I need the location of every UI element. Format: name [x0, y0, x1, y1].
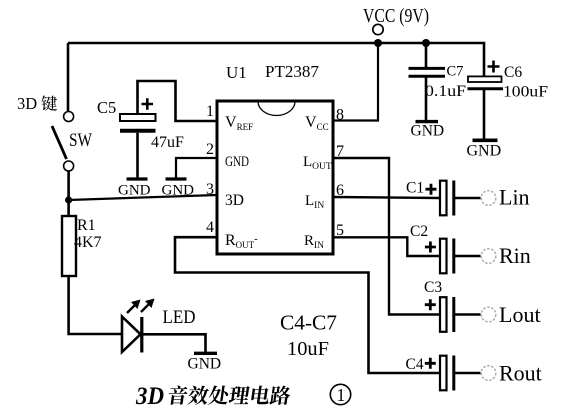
svg-text:C5: C5	[97, 98, 116, 117]
svg-text:1: 1	[206, 103, 214, 120]
wire pin6 to C1	[333, 197, 439, 198]
C1 plus mark	[426, 184, 437, 195]
svg-text:3D: 3D	[135, 381, 164, 410]
wire pin7 to C3	[333, 158, 439, 315]
node terminal Lin	[481, 191, 496, 206]
R1 value labels	[74, 217, 102, 251]
svg-text:1: 1	[337, 385, 346, 405]
svg-text:3: 3	[206, 181, 214, 198]
svg-text:GND: GND	[225, 154, 249, 170]
svg-text:GND: GND	[162, 183, 195, 199]
ground pin2	[162, 179, 195, 199]
wire C3 to terminal	[455, 313, 481, 315]
node terminal Lout	[481, 307, 496, 322]
svg-text:2: 2	[206, 141, 214, 158]
svg-text:C2: C2	[410, 223, 428, 240]
svg-text:VCC (9V): VCC (9V)	[363, 6, 429, 27]
wire C6 to ground	[483, 89, 486, 139]
junction node at pin3 tap	[65, 196, 72, 203]
node VCC junction	[374, 39, 382, 47]
capacitor C6	[468, 76, 504, 88]
capacitor C1	[440, 181, 454, 216]
wire left drop to 3D key switch	[67, 43, 70, 111]
svg-text:4: 4	[206, 219, 214, 236]
svg-text:GND: GND	[411, 123, 445, 140]
wire switch to R1	[67, 171, 70, 216]
svg-text:C6: C6	[504, 64, 522, 81]
svg-text:GND: GND	[467, 143, 502, 160]
svg-text:PT2387: PT2387	[265, 62, 319, 81]
switch SW blade	[52, 126, 67, 159]
svg-text:Rin: Rin	[499, 243, 531, 268]
node SW lower terminal	[64, 161, 74, 171]
3D键 label	[17, 94, 57, 113]
svg-text:C1: C1	[406, 180, 424, 197]
wire C2 to terminal	[455, 255, 481, 257]
svg-text:GND: GND	[188, 356, 222, 373]
wire VCC top rail	[68, 43, 484, 76]
svg-text:47uF: 47uF	[151, 134, 184, 151]
svg-text:100uF: 100uF	[503, 84, 548, 101]
C6 plus mark	[488, 61, 500, 73]
wire R1 to LED	[69, 276, 121, 334]
svg-text:C7: C7	[447, 64, 464, 80]
op-amp U1 PT2387 body	[217, 101, 333, 254]
ground LED	[188, 353, 222, 372]
wire C5 bottom to ground	[136, 133, 139, 178]
ground C7	[411, 122, 445, 140]
svg-text:R1: R1	[77, 217, 96, 234]
node C7 junction	[422, 39, 430, 47]
ground C5	[118, 179, 151, 199]
wire LED to ground	[142, 334, 206, 352]
capacitor C2	[440, 239, 454, 274]
svg-text:GND: GND	[118, 183, 151, 199]
LED D1	[122, 299, 155, 353]
svg-text:Lin: Lin	[499, 185, 530, 210]
svg-text:U1: U1	[226, 63, 247, 82]
svg-text:3D: 3D	[225, 192, 244, 209]
wire rail to C7	[425, 43, 428, 67]
capacitor C3	[440, 297, 454, 332]
wire C1 to terminal	[455, 197, 481, 199]
svg-text:10uF: 10uF	[287, 338, 329, 360]
svg-text:4K7: 4K7	[74, 234, 102, 251]
wire pin8 to VCC rail	[333, 43, 378, 121]
wire pin4 to C4	[175, 237, 439, 373]
caption 3D音效处理电路	[135, 381, 291, 410]
node VCC terminal	[373, 24, 383, 34]
node terminal Rout	[481, 366, 496, 381]
wire C5 top to pin1	[138, 81, 218, 121]
svg-text:3D: 3D	[17, 94, 37, 113]
capacitor C5	[120, 114, 156, 131]
svg-text:Rout: Rout	[499, 361, 542, 386]
capacitor C4	[440, 356, 454, 391]
C3 plus mark	[425, 299, 436, 310]
svg-text:LED: LED	[163, 308, 196, 328]
circled figure number 1	[330, 384, 350, 405]
wire pin5 to C2	[333, 237, 439, 256]
node terminal Rin	[481, 249, 496, 264]
svg-text:0.1uF: 0.1uF	[425, 83, 466, 100]
wire pin2 to ground	[176, 158, 217, 178]
capacitor C7	[409, 68, 446, 76]
svg-text:C3: C3	[424, 279, 442, 296]
wire pin3 to junction	[69, 195, 217, 200]
svg-text:C4-C7: C4-C7	[280, 311, 337, 335]
node 3D key terminal	[64, 112, 74, 122]
svg-text:C4: C4	[406, 356, 424, 373]
C5 plus mark	[142, 98, 154, 110]
svg-text:Lout: Lout	[499, 302, 541, 327]
wire C7 to ground	[425, 78, 428, 121]
wire C4 to terminal	[455, 372, 481, 374]
svg-text:SW: SW	[69, 131, 92, 151]
ground C6	[467, 140, 502, 159]
C4 plus mark	[425, 358, 436, 369]
resistor R1	[62, 216, 76, 276]
C2 plus mark	[425, 242, 436, 253]
